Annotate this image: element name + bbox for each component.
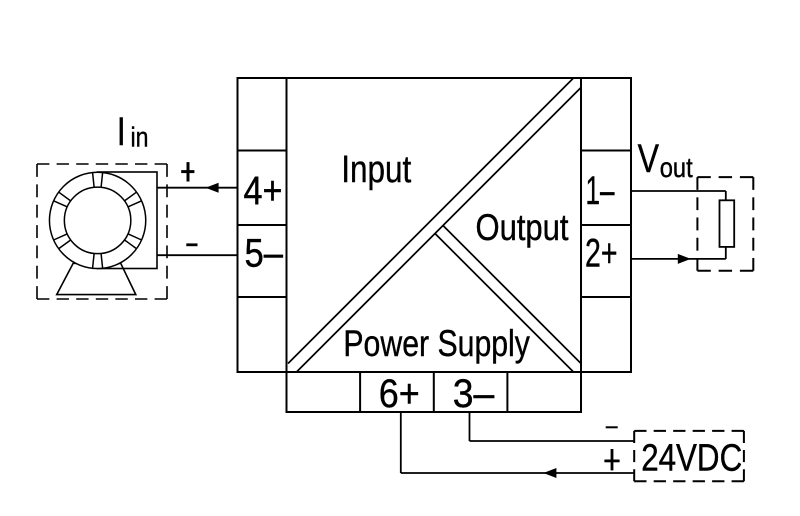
svg-text:V: V [638,137,660,181]
svg-text:in: in [131,122,149,153]
svg-text:Output: Output [476,207,570,248]
svg-text:5–: 5– [245,232,284,276]
svg-text:I: I [117,110,126,154]
svg-text:out: out [660,152,693,183]
svg-text:6+: 6+ [379,372,420,416]
svg-text:Input: Input [341,149,411,191]
svg-text:Power Supply: Power Supply [343,322,530,364]
svg-text:4+: 4+ [244,169,283,213]
svg-text:2+: 2+ [585,232,618,276]
svg-text:3–: 3– [453,372,495,416]
svg-text:24VDC: 24VDC [641,438,742,480]
svg-text:1–: 1– [586,169,615,213]
